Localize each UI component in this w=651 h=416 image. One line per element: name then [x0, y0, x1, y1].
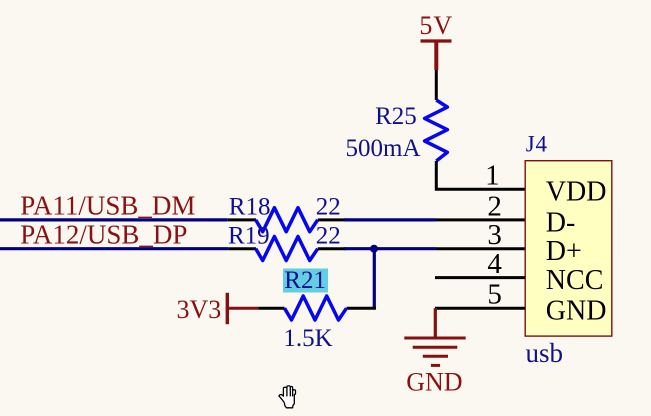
wire D- stub to pin 2 — [437, 218, 526, 221]
wire D+ navy middle segment — [344, 247, 437, 250]
svg-text:2: 2 — [487, 190, 502, 222]
power port 5V — [419, 11, 453, 70]
resistor R21 — [285, 296, 347, 320]
wire D- navy middle segment — [344, 218, 437, 221]
wire 5V to R25 — [435, 70, 438, 100]
hand cursor — [279, 386, 296, 408]
wire D+ net left segment — [0, 247, 228, 250]
svg-text:PA12/USB_DP: PA12/USB_DP — [20, 220, 187, 250]
wire D+ stub to pin 3 — [437, 247, 526, 250]
svg-text:D+: D+ — [546, 236, 582, 267]
pin 4 stub wire — [435, 276, 525, 279]
wire 3V3 to R21 — [258, 307, 284, 310]
resistor R18 — [256, 208, 318, 232]
svg-text:R21: R21 — [284, 267, 326, 294]
junction node D+ — [370, 245, 378, 253]
power port 3V3 — [177, 293, 259, 324]
wire D+ black segment into R19 — [228, 247, 256, 250]
wire R21 to junction riser (black) — [347, 307, 376, 310]
svg-text:GND: GND — [406, 368, 462, 397]
wire D- black segment into R18 — [228, 218, 256, 221]
wire D- black segment right of R18 — [318, 218, 346, 221]
svg-text:R19: R19 — [228, 223, 270, 250]
svg-text:GND: GND — [546, 296, 607, 327]
wire pin 5 to ground — [434, 308, 437, 337]
svg-text:3V3: 3V3 — [177, 295, 222, 324]
svg-text:usb: usb — [526, 338, 564, 368]
svg-text:J4: J4 — [526, 132, 548, 157]
highlight box R21 — [283, 269, 328, 293]
svg-text:NCC: NCC — [546, 265, 604, 296]
svg-text:5V: 5V — [419, 11, 453, 40]
svg-text:22: 22 — [316, 194, 341, 221]
resistor R25 — [425, 100, 448, 161]
svg-text:3: 3 — [487, 219, 502, 251]
svg-text:1: 1 — [485, 160, 500, 192]
svg-text:500mA: 500mA — [346, 135, 421, 162]
wire D+ black segment right of R19 — [318, 247, 346, 250]
resistor R19 — [256, 237, 318, 261]
svg-text:4: 4 — [487, 248, 502, 280]
wire R25 to pin 1 — [436, 161, 525, 189]
svg-text:22: 22 — [316, 223, 341, 250]
svg-text:PA11/USB_DM: PA11/USB_DM — [20, 191, 195, 221]
svg-text:R25: R25 — [375, 103, 417, 130]
pin 5 stub wire — [435, 307, 525, 310]
svg-text:R18: R18 — [229, 194, 271, 221]
svg-text:D-: D- — [546, 207, 576, 238]
svg-text:VDD: VDD — [546, 177, 607, 208]
ground GND symbol — [404, 338, 465, 365]
svg-text:5: 5 — [487, 279, 502, 311]
wire junction down to R21 — [373, 249, 376, 309]
wire D- net left segment — [0, 218, 228, 221]
connector J4 box — [525, 161, 612, 336]
svg-text:1.5K: 1.5K — [283, 325, 332, 352]
